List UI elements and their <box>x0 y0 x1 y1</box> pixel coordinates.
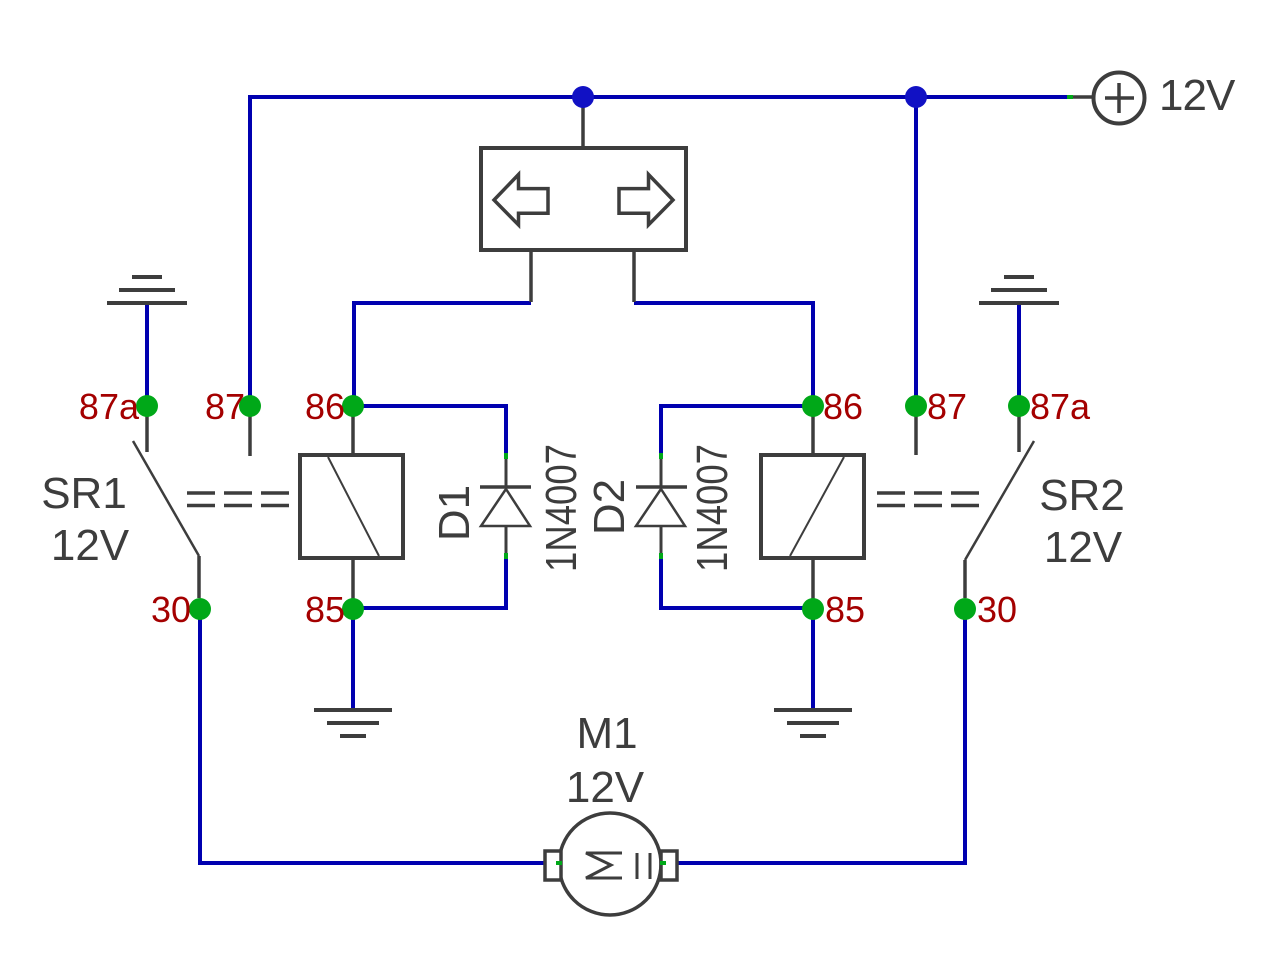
wire node 86 to diode D1 top <box>353 406 506 455</box>
relay K2 coil diagonal <box>790 457 844 556</box>
relay K2 coil box <box>761 455 864 558</box>
pin marker D1 bottom <box>504 553 508 559</box>
wire right ground to 87a <box>1017 303 1021 407</box>
svg-text:85: 85 <box>825 589 865 630</box>
ground bottom left <box>314 710 392 736</box>
relay K1 coil box <box>300 455 403 558</box>
node dot 87a right <box>1008 395 1030 417</box>
pin relay K2 coil bottom <box>811 558 815 608</box>
svg-text:87a: 87a <box>1030 386 1091 427</box>
wire left 85 to ground <box>351 608 355 710</box>
node dot 30 left <box>189 598 211 620</box>
svg-text:86: 86 <box>823 386 863 427</box>
wire diode D1 bottom to node 85 <box>353 556 506 608</box>
svg-text:30: 30 <box>151 589 191 630</box>
wire node 86 right to diode D2 top <box>661 406 813 455</box>
switch SR1 lower contact <box>197 556 201 598</box>
pin marker D2 bottom <box>659 553 663 559</box>
node dot 87 right <box>905 395 927 417</box>
pin switch box bottom left <box>529 250 533 302</box>
node dot 30 right <box>954 598 976 620</box>
node dot 85 left <box>342 598 364 620</box>
switch SR2 arm <box>965 441 1034 560</box>
diode D2 <box>636 458 687 554</box>
svg-text:SR1: SR1 <box>41 469 127 518</box>
diode D1 <box>480 458 531 554</box>
pin SR2 87a stub <box>1017 406 1021 452</box>
wire right 87 drop <box>914 97 918 407</box>
wire switch box right output to node 86 right <box>634 303 813 407</box>
svg-text:1N4007: 1N4007 <box>688 444 737 572</box>
pin left 87 stub <box>248 406 252 456</box>
svg-text:D1: D1 <box>430 485 479 541</box>
svg-text:M1: M1 <box>576 709 637 758</box>
svg-text:85: 85 <box>305 589 345 630</box>
svg-text:12V: 12V <box>1159 71 1236 120</box>
wire left 30 to motor M1 <box>200 609 558 863</box>
node dot 87a left <box>136 395 158 417</box>
switch SR1 arm <box>133 441 199 556</box>
wire diode D2 bottom to node 85 right <box>661 556 813 608</box>
wire top bus 12V <box>250 97 1070 407</box>
pin relay K2 coil top <box>811 406 815 455</box>
pin relay K1 coil top <box>351 406 355 455</box>
node dot 86 left <box>342 395 364 417</box>
wire right 30 to motor M1 <box>663 609 965 863</box>
svg-text:30: 30 <box>977 589 1017 630</box>
pin switch box top <box>581 100 585 148</box>
wire left ground to 87a <box>145 303 149 407</box>
pin endpoint marker power <box>1067 95 1073 99</box>
svg-text:12V: 12V <box>1044 523 1123 572</box>
junction dot top left <box>572 86 594 108</box>
pin marker D2 top <box>659 453 663 459</box>
ground top left <box>107 277 187 303</box>
motor M1 <box>545 813 677 915</box>
node dot 85 right <box>802 598 824 620</box>
svg-text:12V: 12V <box>51 521 130 570</box>
pin marker M1 left <box>556 861 562 865</box>
ground bottom right <box>774 710 852 736</box>
svg-text:12V: 12V <box>566 763 645 812</box>
pin marker D1 top <box>504 453 508 459</box>
wire switch box left output to node 86 left <box>354 303 531 407</box>
pin marker M1 right <box>660 861 666 865</box>
svg-text:87: 87 <box>927 386 967 427</box>
svg-text:SR2: SR2 <box>1039 471 1125 520</box>
relay K1 coil diagonal <box>328 457 379 556</box>
svg-text:1N4007: 1N4007 <box>537 444 586 572</box>
linkage dashes K2 to SR2 <box>877 493 979 506</box>
svg-text:86: 86 <box>305 386 345 427</box>
power supply +12V terminal <box>1094 73 1145 124</box>
node dot 86 right <box>802 395 824 417</box>
pin right 87 stub <box>914 406 918 455</box>
svg-text:D2: D2 <box>585 479 634 535</box>
right arrow icon <box>619 175 673 225</box>
node dot 87 left <box>239 395 261 417</box>
left arrow icon <box>494 175 548 225</box>
linkage dashes SR1 to K1 <box>187 493 289 506</box>
svg-text:87: 87 <box>205 386 245 427</box>
pin switch box bottom right <box>632 250 636 302</box>
junction dot top right <box>905 86 927 108</box>
svg-text:87a: 87a <box>79 386 140 427</box>
wire right 85 to ground <box>811 608 815 710</box>
ground top right <box>979 277 1059 303</box>
switch SR2 lower contact <box>963 560 967 598</box>
pin relay K1 coil bottom <box>351 558 355 608</box>
pin lead power supply <box>1070 95 1094 99</box>
pin SR1 87a stub <box>145 406 149 452</box>
direction switch S1 box <box>481 148 686 250</box>
